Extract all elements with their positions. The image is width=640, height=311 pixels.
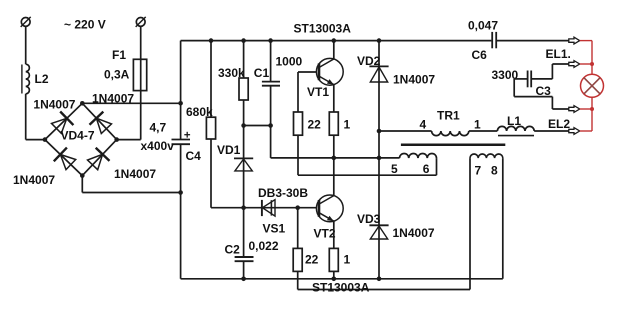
resistor 1 (VT1 emitter) xyxy=(329,112,338,135)
diode VD1 xyxy=(234,157,253,159)
wire xyxy=(298,289,470,291)
wire xyxy=(534,130,569,132)
svg-text:L1: L1 xyxy=(507,114,521,128)
terminal X2 (mains) xyxy=(136,18,145,27)
wire xyxy=(271,157,400,159)
wire (red) xyxy=(580,108,592,110)
node xyxy=(178,101,183,106)
svg-text:0,022: 0,022 xyxy=(249,239,279,253)
svg-text:TR1: TR1 xyxy=(437,109,460,123)
svg-text:VD2: VD2 xyxy=(357,54,381,68)
transistor VT2 xyxy=(316,195,343,222)
svg-text:7: 7 xyxy=(475,164,482,178)
svg-text:1N4007: 1N4007 xyxy=(114,167,156,181)
wire xyxy=(532,78,553,80)
svg-text:330k: 330k xyxy=(218,66,245,80)
wire xyxy=(45,103,82,139)
transformer TR1 primary (4-1) xyxy=(432,131,469,136)
capacitor C2 xyxy=(235,256,254,258)
svg-text:1: 1 xyxy=(474,118,481,132)
wire xyxy=(469,158,471,289)
resistor 1 (VT2 emitter) xyxy=(329,248,338,271)
wire xyxy=(297,208,299,249)
terminal arrow EL1 top xyxy=(569,37,580,44)
diode VD7 (bridge, bottom-right) xyxy=(96,148,110,161)
resistor 22 (VT1 base) xyxy=(294,112,303,135)
svg-text:EL2: EL2 xyxy=(548,117,570,131)
node xyxy=(241,123,246,128)
node xyxy=(377,38,382,43)
diode VD3 xyxy=(369,224,388,226)
lamp EL1/EL2 xyxy=(581,74,604,97)
wire xyxy=(243,261,245,279)
svg-text:8: 8 xyxy=(491,164,498,178)
wire (red) xyxy=(580,130,592,132)
svg-text:VT2: VT2 xyxy=(314,227,336,241)
svg-text:VD3: VD3 xyxy=(357,212,381,226)
svg-text:22: 22 xyxy=(305,253,319,267)
wire xyxy=(180,144,182,279)
wire xyxy=(82,102,180,104)
svg-text:EL1.: EL1. xyxy=(546,47,571,61)
diac VS1 (DB3-30B) xyxy=(261,200,263,216)
svg-text:x400v: x400v xyxy=(141,139,175,153)
wire xyxy=(244,125,271,127)
fuse F1 xyxy=(133,59,146,90)
diode VD6 (bridge, bottom-left) xyxy=(54,148,67,162)
wire xyxy=(243,126,245,208)
transformer TR1 core xyxy=(401,144,505,147)
transistor VT1 xyxy=(316,58,343,85)
wire xyxy=(378,158,380,279)
transformer TR1 winding 7-8 xyxy=(470,154,503,158)
svg-text:VT1: VT1 xyxy=(307,85,329,99)
node xyxy=(241,205,246,210)
svg-text:VD4-7: VD4-7 xyxy=(61,129,95,143)
node xyxy=(332,156,337,161)
svg-text:1N4007: 1N4007 xyxy=(393,73,435,87)
svg-text:5: 5 xyxy=(391,162,398,176)
node xyxy=(377,156,382,161)
wire xyxy=(551,64,553,79)
wire (red) xyxy=(580,40,592,42)
terminal arrow EL2 bottom xyxy=(569,128,580,135)
terminal arrow EL1 bottom xyxy=(569,61,580,68)
resistor 330k xyxy=(239,78,248,100)
node (red) xyxy=(590,107,594,111)
svg-text:4: 4 xyxy=(420,118,427,132)
node xyxy=(295,205,300,210)
capacitor C1 xyxy=(262,81,280,83)
wire xyxy=(180,41,182,140)
svg-text:F1: F1 xyxy=(112,48,126,62)
capacitor C4 xyxy=(172,139,191,141)
diode VD5 (bridge, right-top) xyxy=(90,112,104,125)
node (red) xyxy=(590,62,594,66)
wire xyxy=(181,40,492,42)
wire (red) xyxy=(591,41,593,131)
wire xyxy=(25,94,27,140)
node xyxy=(332,277,337,282)
node xyxy=(268,38,273,43)
svg-text:DB3-30B: DB3-30B xyxy=(258,186,308,200)
node xyxy=(377,277,382,282)
svg-text:680k: 680k xyxy=(186,105,213,119)
svg-text:ST13003A: ST13003A xyxy=(294,21,352,35)
wire xyxy=(298,174,437,176)
svg-text:C2: C2 xyxy=(225,243,241,257)
svg-text:1N4007: 1N4007 xyxy=(393,226,435,240)
node bridge top xyxy=(80,101,85,106)
node bridge bottom xyxy=(80,173,85,178)
wire xyxy=(270,41,272,82)
wire (red) xyxy=(580,63,592,65)
wire xyxy=(297,135,299,175)
wire xyxy=(243,208,245,257)
svg-text:VS1: VS1 xyxy=(263,222,286,236)
wire xyxy=(298,71,316,73)
svg-text:22: 22 xyxy=(308,118,322,132)
node xyxy=(241,277,246,282)
svg-text:4,7: 4,7 xyxy=(150,121,167,135)
diode VD4 (bridge, left-top) xyxy=(60,112,73,126)
wire xyxy=(297,271,299,289)
node bridge left xyxy=(43,137,48,142)
wire xyxy=(270,86,272,158)
wire xyxy=(81,176,83,193)
wire xyxy=(244,207,317,209)
svg-text:1N4007: 1N4007 xyxy=(13,173,55,187)
inductor L1 xyxy=(497,126,534,131)
svg-text:0,047: 0,047 xyxy=(468,19,498,33)
svg-text:6: 6 xyxy=(423,162,430,176)
diode VD2 xyxy=(369,65,388,67)
wire xyxy=(513,79,515,97)
wire xyxy=(333,271,335,278)
node xyxy=(332,38,337,43)
wire xyxy=(210,41,212,118)
svg-text:~ 220 V: ~ 220 V xyxy=(64,18,106,32)
svg-text:1: 1 xyxy=(344,253,351,267)
node xyxy=(268,123,273,128)
terminal arrow EL2 top xyxy=(569,106,580,113)
wire xyxy=(502,158,504,279)
transformer TR1 winding 5-6 xyxy=(400,153,437,158)
wire xyxy=(333,221,335,248)
wire xyxy=(117,139,141,141)
node xyxy=(178,190,183,195)
wire xyxy=(379,130,432,132)
wire xyxy=(210,139,212,208)
node bridge right xyxy=(114,137,119,142)
resistor 680k xyxy=(206,117,215,139)
wire xyxy=(469,130,498,132)
node xyxy=(377,129,382,134)
wire xyxy=(243,100,245,126)
node xyxy=(241,38,246,43)
resistor 22 (VT2 base) xyxy=(293,248,302,271)
label + (C4 polarity) xyxy=(184,134,190,136)
wire xyxy=(378,131,380,158)
svg-text:1000: 1000 xyxy=(276,55,303,69)
svg-text:1: 1 xyxy=(344,118,351,132)
svg-text:0,3A: 0,3A xyxy=(104,68,130,82)
svg-text:L2: L2 xyxy=(35,72,49,86)
wire xyxy=(181,278,503,280)
terminal X1 (mains) xyxy=(21,18,30,27)
svg-text:C6: C6 xyxy=(472,48,488,62)
wire xyxy=(497,40,569,42)
wire xyxy=(333,135,335,195)
svg-text:C4: C4 xyxy=(186,149,202,163)
wire xyxy=(333,41,335,59)
wire xyxy=(243,41,245,78)
wire xyxy=(25,26,27,64)
capacitor C6 xyxy=(491,32,493,48)
inductor L2 xyxy=(26,64,30,94)
wire xyxy=(378,41,380,131)
svg-text:VD1: VD1 xyxy=(217,143,241,157)
capacitor C3 xyxy=(527,71,529,88)
svg-text:1N4007: 1N4007 xyxy=(33,97,75,111)
svg-text:ST13003A: ST13003A xyxy=(312,281,370,295)
wire xyxy=(140,26,142,139)
wire xyxy=(514,78,527,80)
wire xyxy=(333,85,335,112)
svg-text:C1: C1 xyxy=(254,66,270,80)
node xyxy=(209,38,214,43)
